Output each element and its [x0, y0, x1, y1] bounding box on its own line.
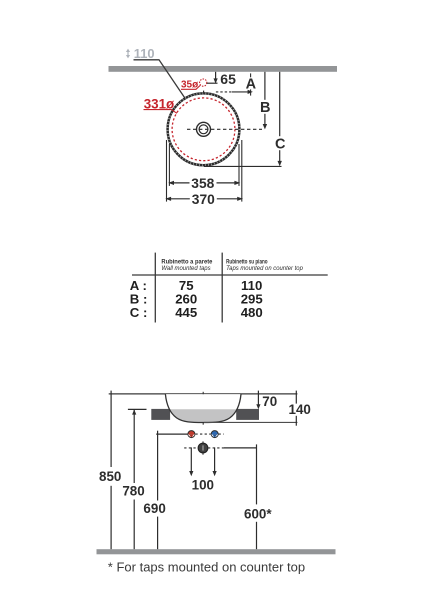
label 331ø with leader: [144, 96, 177, 113]
svg-text:370: 370: [192, 192, 215, 207]
table row C: [130, 305, 263, 320]
dimension 780: [122, 409, 146, 549]
svg-text:850: 850: [99, 469, 121, 484]
inner rim dashed circle 331: [172, 98, 235, 161]
basin outer circle 370: [168, 93, 240, 165]
dimension 110 label: [134, 46, 155, 61]
tap hole 35 (dashed red circle): [200, 79, 207, 86]
leader line from 110 label to basin rim: [134, 60, 185, 98]
svg-text:358: 358: [191, 176, 214, 191]
reference line at basin bottom for C: [204, 165, 282, 167]
dimension 70: [256, 391, 277, 410]
table row A: [130, 278, 263, 293]
left extension lines: [167, 140, 170, 202]
table row B: [130, 292, 263, 307]
floor: [97, 549, 336, 554]
dimension 110 arrow: [126, 49, 130, 59]
cold tap symbol: [211, 431, 218, 438]
dimension 600: [244, 444, 272, 549]
svg-text:110: 110: [134, 46, 155, 61]
svg-text:780: 780: [122, 484, 144, 499]
dimension C: [275, 72, 286, 167]
knob dashed line to 600: [184, 447, 256, 449]
svg-text:B: B: [260, 100, 270, 116]
svg-text:445: 445: [175, 305, 197, 320]
svg-text:Taps mounted on counter top: Taps mounted on counter top: [226, 265, 303, 272]
svg-text:C :: C :: [130, 305, 148, 320]
dimension 690: [143, 438, 165, 550]
dashes between taps: [195, 433, 223, 435]
drain outer circle: [197, 122, 211, 136]
footnote: [108, 559, 305, 574]
hot tap symbol: [188, 431, 195, 438]
svg-text:A: A: [246, 76, 257, 92]
bowl center ticks: [202, 392, 204, 425]
tap reference line: [156, 431, 188, 438]
dimension 370: [165, 192, 243, 207]
label 35ø with leader: [181, 80, 200, 91]
basin top center tick: [203, 91, 205, 94]
dimension 850: [99, 391, 121, 550]
svg-text:65: 65: [220, 71, 236, 87]
table header column 2: [226, 259, 303, 272]
svg-text:100: 100: [192, 477, 214, 492]
dimension 100: [189, 447, 217, 492]
line from tap hole to 65 dimension: [207, 82, 218, 84]
table column divider 1: [154, 253, 156, 323]
dimension 358: [168, 176, 240, 191]
table header column 1: [161, 259, 212, 272]
horizontal centerline through drain: [187, 128, 262, 130]
svg-text:* For taps mounted on counter: * For taps mounted on counter top: [108, 559, 305, 574]
wall (top view): [109, 66, 338, 72]
basin bowl outline: [165, 394, 241, 422]
lower reference line for 140: [204, 421, 297, 423]
dimension B: [260, 72, 270, 130]
table header rule: [132, 274, 328, 276]
svg-text:600*: 600*: [244, 506, 272, 521]
counter left block: [151, 409, 170, 420]
right extension lines: [239, 140, 242, 202]
table column divider 2: [221, 253, 223, 323]
dimension 140: [288, 391, 311, 426]
dimension A: [216, 73, 257, 95]
svg-text:140: 140: [289, 402, 311, 417]
svg-text:690: 690: [143, 501, 165, 516]
drain knob symbol: [198, 441, 208, 454]
worktop rim reference line (side view): [109, 393, 298, 395]
counter right block: [236, 409, 259, 420]
svg-text:480: 480: [241, 305, 263, 320]
svg-text:70: 70: [262, 394, 277, 409]
drain inner circle: [199, 125, 208, 134]
svg-text:Wall mounted taps: Wall mounted taps: [161, 265, 211, 272]
svg-text:C: C: [275, 137, 286, 153]
dimension 65: [214, 71, 237, 87]
basin bowl gray lower fill: [165, 394, 241, 422]
